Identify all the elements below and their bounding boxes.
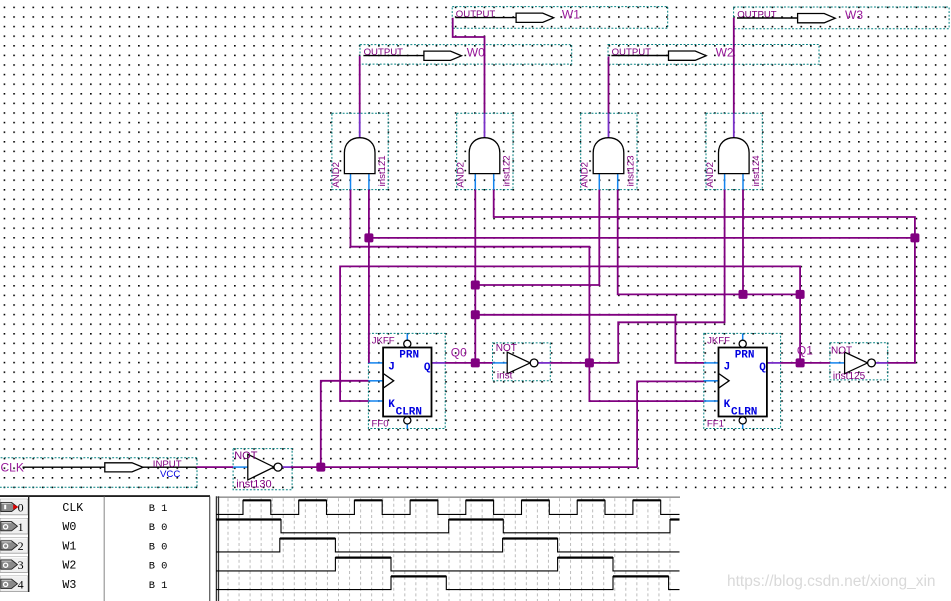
wire CLK-bar net: NOT inst130 output east run	[291, 466, 637, 468]
NOT gate inst125	[830, 343, 888, 382]
svg-text:4: 4	[18, 577, 24, 591]
svg-text:W2: W2	[62, 560, 76, 573]
NOT gate inst	[493, 343, 551, 382]
waveform pane	[216, 496, 680, 601]
junction: Q1-bar net at AND inst121 input-2	[364, 233, 373, 242]
output pin W3	[734, 7, 950, 29]
AND2 gate inst121	[331, 113, 388, 189]
svg-text:0: 0	[18, 501, 24, 515]
svg-text:W3: W3	[845, 8, 863, 22]
svg-text:FF0: FF0	[372, 418, 389, 429]
junction: Q0-bar net at FF1 K branch	[585, 358, 594, 367]
wire W2 net: AND inst123 output to OUTPUT pin W2	[608, 57, 610, 114]
svg-text:Q1: Q1	[797, 343, 813, 357]
svg-text:K: K	[724, 399, 731, 411]
waveform trace CLK	[216, 500, 680, 514]
waveform trace W3	[216, 576, 680, 589]
svg-text:FF1: FF1	[707, 418, 724, 429]
svg-text:NOT: NOT	[234, 450, 258, 462]
svg-text:W0: W0	[62, 521, 76, 534]
svg-text:inst122: inst122	[502, 155, 513, 186]
junction: node Q0	[471, 358, 480, 367]
wire Q1-bar net: AND inst121 input-2 down to FF0 J	[368, 190, 370, 363]
svg-text:Q: Q	[424, 362, 431, 374]
AND2 gate inst122	[456, 113, 513, 189]
svg-text:PRN: PRN	[399, 349, 419, 361]
wire Q1 net: AND inst124 input-2 down to junction	[742, 190, 744, 295]
wire CLK-bar net: branch up to FF1 clock	[637, 381, 704, 467]
AND2 gate inst124	[705, 113, 762, 189]
svg-text:JKFF: JKFF	[707, 336, 730, 347]
svg-text:J: J	[724, 361, 731, 373]
svg-text:https://blog.csdn.net/xiong_xi: https://blog.csdn.net/xiong_xin	[727, 573, 936, 590]
wire W3 net: AND inst124 output to OUTPUT pin W3	[733, 18, 735, 114]
svg-text:K: K	[388, 399, 395, 411]
svg-text:W2: W2	[716, 46, 734, 60]
wire Q0-bar net: NOT inst output eastward	[550, 362, 618, 364]
output pin W0	[360, 45, 572, 65]
svg-text:W1: W1	[562, 8, 580, 22]
JK flip-flop FF1	[704, 333, 781, 429]
svg-text:B 0: B 0	[149, 541, 168, 553]
svg-text:inst125: inst125	[833, 371, 866, 382]
junction: CLK-bar net at FF0 clock branch	[316, 463, 325, 472]
input pin CLK	[0, 458, 197, 488]
wire Q1 net: riser from Q1 node and run at y266 to FF0 K	[340, 266, 800, 401]
svg-text:B 0: B 0	[149, 561, 168, 573]
svg-text:W3: W3	[62, 579, 76, 592]
svg-text:B 0: B 0	[149, 522, 168, 534]
simulation signal table	[0, 495, 210, 601]
svg-text:JKFF: JKFF	[372, 336, 395, 347]
wire Q0 net: FF0 Q output to NOT inst input	[445, 362, 493, 364]
NOT gate inst130	[233, 449, 292, 491]
waveform trace W0	[216, 520, 680, 533]
svg-text:Q: Q	[759, 362, 766, 374]
wire Q0-bar net: AND inst124 input-1 down-left to Q0-bar line	[618, 190, 724, 363]
svg-text:inst130: inst130	[236, 479, 271, 491]
waveform trace W2	[216, 558, 680, 571]
output pin W2	[608, 45, 819, 65]
junction: Q0 net branch to AND inst123	[471, 281, 480, 290]
wire Q1 net: FF1 Q output to NOT inst125 input	[780, 362, 830, 364]
waveform trace W1	[216, 539, 680, 552]
svg-text:inst121: inst121	[377, 155, 388, 186]
output pin W1	[452, 7, 668, 29]
junction: Q1 net at AND inst124 input-2	[739, 290, 748, 299]
svg-text:NOT: NOT	[496, 343, 517, 354]
AND2 gate inst123	[580, 113, 637, 189]
svg-text:NOT: NOT	[831, 346, 852, 357]
svg-text:AND2: AND2	[456, 162, 467, 188]
svg-text:AND2: AND2	[331, 162, 342, 188]
JK flip-flop FF0	[368, 333, 445, 429]
wire CLK-bar net: branch up to FF0 clock	[321, 381, 369, 467]
svg-text:inst: inst	[497, 371, 513, 382]
svg-text:VCC: VCC	[160, 469, 180, 480]
svg-text:CLK: CLK	[62, 502, 83, 515]
svg-text:CLRN: CLRN	[396, 407, 422, 419]
svg-text:CLK: CLK	[1, 460, 24, 474]
svg-text:AND2: AND2	[580, 162, 591, 188]
svg-text:3: 3	[18, 558, 24, 572]
svg-text:AND2: AND2	[705, 162, 716, 188]
svg-text:W1: W1	[62, 540, 76, 553]
junction: Q1 net riser at y294	[796, 290, 805, 299]
wire Q0 net: branch at y285 to AND inst123 input-1	[475, 190, 599, 285]
wire Q0-bar net: AND inst121 input-1 down to node, across and to FF1 K	[351, 190, 704, 402]
wire Q1 net: AND inst123 input-2 down to y294 run	[618, 190, 800, 295]
svg-text:W0: W0	[467, 46, 485, 60]
junction: Q0 net branch to FF1 J	[471, 310, 480, 319]
svg-text:B 1: B 1	[149, 503, 168, 515]
junction: Q1-bar net at NOT inst125 riser	[910, 233, 919, 242]
svg-text:1: 1	[18, 520, 24, 534]
svg-text:Q0: Q0	[451, 345, 467, 359]
junction: node Q1	[796, 358, 805, 367]
svg-text:CLRN: CLRN	[731, 407, 757, 419]
svg-text:PRN: PRN	[735, 349, 755, 361]
wire CLK net: input pin to NOT inst130	[197, 466, 234, 468]
wire Q0 net: AND inst122 input-1 down to Q0 node	[474, 190, 476, 363]
svg-text:J: J	[388, 361, 395, 373]
svg-text:B 1: B 1	[149, 580, 168, 592]
svg-text:inst123: inst123	[626, 155, 637, 186]
wire W0 net: AND inst121 output to OUTPUT pin W0	[359, 56, 361, 113]
wire Q1-bar net: AND inst122 input-2 up-over to NOT inst125 output	[494, 190, 915, 363]
svg-text:2: 2	[18, 539, 24, 553]
wire Q1-bar net: horizontal run at y238 to NOT inst125 output riser	[369, 237, 915, 239]
svg-text:inst124: inst124	[751, 155, 762, 187]
wire W1 net: AND inst122 output to OUTPUT pin W1	[453, 18, 485, 114]
wire Q0 net: branch at y314.8 across to FF1 J	[475, 315, 704, 363]
